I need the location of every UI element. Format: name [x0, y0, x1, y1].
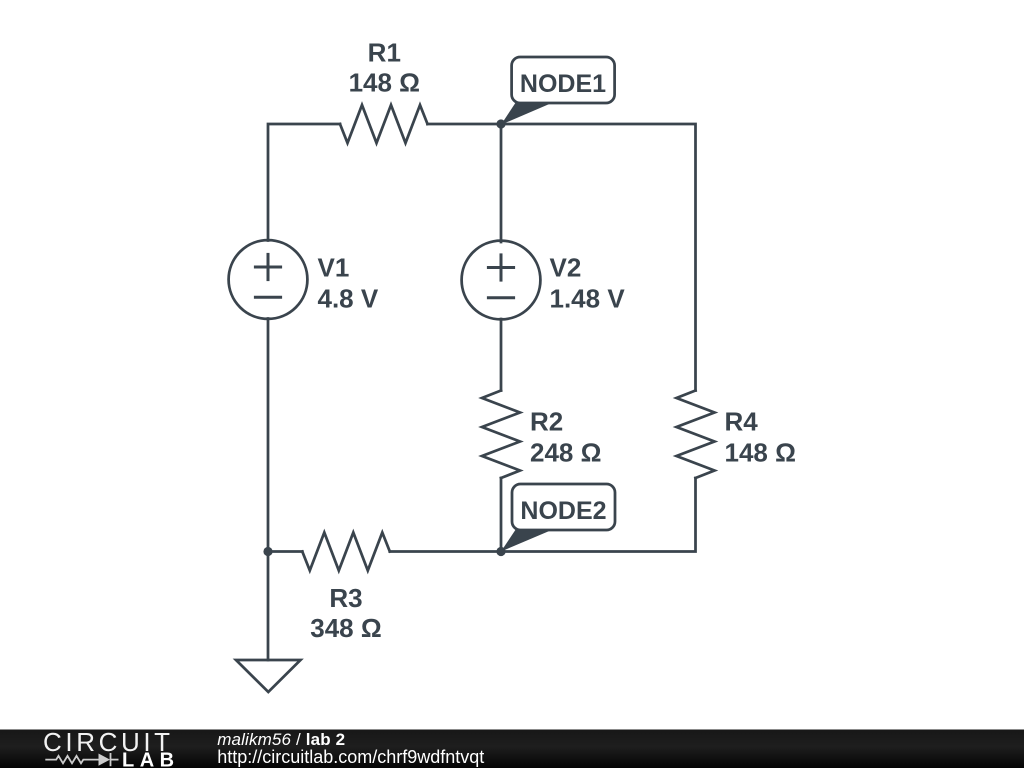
node NODE1 flag box — [512, 57, 615, 103]
logo resistor-diode doodle — [45, 753, 118, 766]
svg-text:R1: R1 — [368, 38, 401, 68]
node NODE2 flag box — [512, 484, 615, 530]
wire V2 bottom to R2 — [500, 319, 503, 391]
wire top-left: V1 top to R1 — [268, 124, 340, 241]
svg-text:R3: R3 — [329, 583, 362, 613]
ground — [236, 660, 301, 692]
svg-text:348 Ω: 348 Ω — [310, 613, 381, 643]
wire node B to R3 — [390, 550, 501, 553]
wire node A to right branch top corner — [501, 124, 696, 391]
svg-text:V2: V2 — [550, 253, 582, 283]
wire R1 to node A — [428, 123, 502, 126]
svg-text:LAB: LAB — [122, 750, 180, 768]
svg-text:NODE1: NODE1 — [520, 70, 606, 98]
svg-text:4.8 V: 4.8 V — [318, 284, 379, 314]
wire node A down to V2 — [500, 124, 503, 242]
resistor R1 — [340, 105, 428, 143]
svg-text:R2: R2 — [530, 407, 563, 437]
wire junction to ground symbol — [267, 552, 270, 661]
resistor R2 — [482, 391, 520, 479]
node A junction dot — [496, 119, 505, 128]
resistor R3 — [302, 533, 390, 571]
svg-text:148 Ω: 148 Ω — [349, 68, 420, 98]
wire V1 bottom to ground node — [267, 319, 270, 552]
node NODE2 flag pointer — [501, 529, 554, 552]
svg-text:1.48 V: 1.48 V — [550, 284, 626, 314]
svg-text:V1: V1 — [318, 253, 350, 283]
wire R4 bottom to bottom-right corner — [501, 478, 696, 552]
node NODE1 flag pointer — [501, 102, 554, 125]
voltage source V1 — [229, 240, 308, 319]
ground junction dot — [263, 547, 272, 556]
wire R2 to node B — [500, 478, 503, 552]
svg-text:NODE2: NODE2 — [520, 497, 606, 525]
wire R3 to ground junction — [268, 550, 302, 553]
svg-text:http://circuitlab.com/chrf9wdf: http://circuitlab.com/chrf9wdfntvqt — [217, 747, 484, 767]
node B junction dot — [496, 547, 505, 556]
svg-text:248 Ω: 248 Ω — [530, 438, 601, 468]
svg-text:148 Ω: 148 Ω — [725, 438, 796, 468]
voltage source V2 — [462, 241, 541, 320]
svg-text:R4: R4 — [725, 407, 759, 437]
resistor R4 — [677, 391, 715, 479]
